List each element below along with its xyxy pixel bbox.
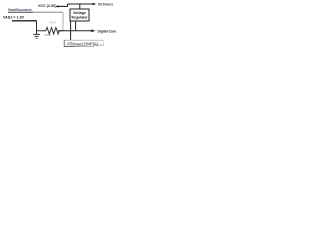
wire faint bottom-right continuation xyxy=(94,44,105,46)
ground xyxy=(33,34,40,38)
wire short/disconnect thin continuation xyxy=(33,11,63,13)
box U2 darker left-bottom edge xyxy=(64,40,75,47)
svg-text:Regulator: Regulator xyxy=(72,16,89,20)
box U2 ATMega1284P(A) xyxy=(64,40,103,46)
wire jog vertical xyxy=(67,4,69,6)
svg-text:Voltage: Voltage xyxy=(73,11,86,15)
wire short/disconnect horizontal xyxy=(8,11,33,13)
wire VADJ vertical xyxy=(36,20,38,34)
wire tap down to regulator box xyxy=(79,4,81,9)
svg-text:VCC (3.3V): VCC (3.3V) xyxy=(38,3,57,8)
wire digital com line xyxy=(58,30,92,32)
arrowhead to VCC label (points left) xyxy=(56,5,59,7)
box U1 voltage regulator xyxy=(70,9,89,21)
wire VADJ horizontal xyxy=(12,20,37,22)
svg-text:470: 470 xyxy=(45,33,51,37)
svg-text:VOff: VOff xyxy=(49,21,56,25)
svg-text:Short/Disconnect: Short/Disconnect xyxy=(8,8,32,12)
wire regulator pin right down to digital line xyxy=(75,21,77,31)
arrowhead to Digital Com (points right) xyxy=(91,29,95,32)
svg-text:I/O Drivers: I/O Drivers xyxy=(98,3,113,7)
arrowhead to I/O Drivers (points right) xyxy=(93,3,97,5)
wire regulator pin left down to MCU box xyxy=(70,21,72,40)
svg-text:Digital Com: Digital Com xyxy=(98,30,117,34)
svg-text:VADJ = 1.8V: VADJ = 1.8V xyxy=(3,16,24,20)
wire VCC main horizontal left segment xyxy=(58,5,68,7)
wire short/disconnect vertical drop xyxy=(62,12,64,30)
resistor R 470 xyxy=(37,28,64,34)
wire VCC main horizontal right segment xyxy=(68,3,93,5)
svg-text:ATMega1284P(A): ATMega1284P(A) xyxy=(67,41,99,46)
